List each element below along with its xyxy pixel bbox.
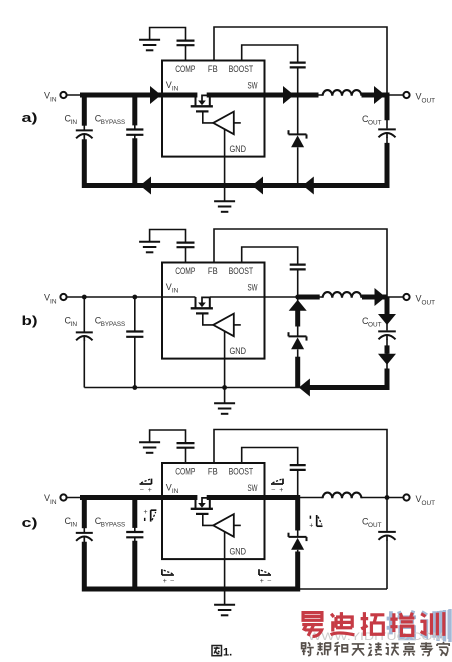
[c] capacitor COUT xyxy=(386,498,388,531)
caption figure 1 xyxy=(212,646,222,656)
[c] top ground xyxy=(139,441,160,443)
[c] op-amp IC box U1 xyxy=(162,463,265,559)
[a] thick post-inductor segment with arrow into VOUT node xyxy=(362,95,388,120)
[a] thick COUT lower leg + bottom rail + CIN lower leg xyxy=(84,139,387,185)
[b] wire comp-gnd xyxy=(150,230,186,243)
[c] capacitor comp cap xyxy=(177,442,195,444)
svg-text:+: + xyxy=(144,509,148,516)
[a] thick CIN upper leg xyxy=(82,95,87,126)
svg-text:b): b) xyxy=(22,313,38,328)
[b] VIN terminal xyxy=(60,294,66,300)
svg-text:IN: IN xyxy=(50,96,57,103)
[b] wire driver input stub xyxy=(234,324,241,326)
svg-text:IN: IN xyxy=(50,298,57,305)
[c] thick rail MOSFET to SW node then down xyxy=(207,498,298,531)
[c] ripple annotation 4 (SW rail) xyxy=(271,483,283,485)
[b] wire bottom rail xyxy=(84,387,387,389)
[c] ripple annotation 6 (ground right) xyxy=(259,574,271,576)
[c] capacitor CIN xyxy=(83,498,85,533)
[c] wire gate lead xyxy=(203,515,213,525)
[b] capacitor comp cap xyxy=(177,242,195,244)
svg-text:BOOST: BOOST xyxy=(229,64,254,74)
[c] capacitor boost cap xyxy=(290,464,306,466)
[b] thick diode leg upper with up arrow xyxy=(289,300,307,311)
svg-text:BOOST: BOOST xyxy=(229,467,254,477)
svg-text:IN: IN xyxy=(172,488,179,495)
svg-text:IN: IN xyxy=(71,119,78,126)
[c] ripple annotation 5 (diode leg) xyxy=(316,515,318,526)
[c] wire driver input stub xyxy=(234,524,241,526)
watermark red brand glyph tuo xyxy=(361,612,385,636)
[c] inductor L1 xyxy=(323,493,362,499)
svg-text:BYPASS: BYPASS xyxy=(101,321,126,328)
[b] thick diode leg lower xyxy=(295,357,300,388)
svg-text:OUT: OUT xyxy=(368,321,382,328)
[c] wire GND lead xyxy=(224,532,226,605)
[a] wire comp pin xyxy=(185,46,187,61)
[a] bottom ground symbol xyxy=(214,200,235,202)
[b] top ground xyxy=(139,241,160,243)
[c] transistor Q1 switch xyxy=(202,497,210,503)
[b] inductor L1 xyxy=(323,292,362,298)
[b] wire BOOST net xyxy=(242,247,298,264)
[a] wire comp-gnd xyxy=(150,28,186,41)
svg-text:IN: IN xyxy=(71,522,78,529)
[c] bottom ground symbol xyxy=(214,604,235,606)
watermark red brand glyph xun xyxy=(420,612,443,636)
watermark blue underlay glyphs xyxy=(387,611,416,639)
[a] capacitor CBYPASS xyxy=(134,95,136,130)
[c] thick CBYPASS legs xyxy=(132,498,137,528)
[c] VIN terminal xyxy=(60,494,66,500)
[a] capacitor comp cap xyxy=(177,39,195,41)
[c] thick input rail through IC xyxy=(80,495,197,500)
svg-text:SW: SW xyxy=(248,483,258,493)
svg-text:c): c) xyxy=(22,515,38,530)
[a] op-amp driver U2 xyxy=(213,112,234,135)
[a] transistor Q1 switch xyxy=(202,95,210,101)
[a] VIN terminal xyxy=(60,92,66,98)
svg-text:+: + xyxy=(148,487,152,494)
[a] wire BOOST net xyxy=(242,45,298,62)
[c] ripple annotation 3 (ground left) xyxy=(162,574,174,576)
svg-text:IN: IN xyxy=(172,288,179,295)
svg-text:SW: SW xyxy=(248,81,258,91)
[c] wire BOOST net xyxy=(242,448,298,465)
svg-text:+: + xyxy=(260,578,264,585)
[a] top ground xyxy=(139,39,160,41)
svg-text:+: + xyxy=(279,487,283,494)
[b] wire FB net xyxy=(214,229,387,297)
[b] capacitor CIN xyxy=(83,297,85,332)
svg-text:1.: 1. xyxy=(223,647,232,659)
[c] op-amp driver U2 xyxy=(213,514,234,537)
[c] wire comp-gnd xyxy=(150,430,186,443)
[b] VOUT terminal xyxy=(403,294,409,300)
[c] thick CIN upper leg xyxy=(82,498,87,529)
[b] op-amp driver U2 xyxy=(213,314,234,337)
[c] VOUT terminal xyxy=(403,494,409,500)
[b] wire gate lead xyxy=(203,315,213,325)
[b] op-amp IC box U1 xyxy=(162,263,265,359)
[a] wire gate lead xyxy=(203,113,213,123)
[b] bottom rail left arrow into diode junction xyxy=(299,379,310,397)
svg-text:–: – xyxy=(268,578,272,585)
[a] capacitor boost cap xyxy=(290,61,306,63)
watermark tagline glyphs xyxy=(302,642,314,655)
[b] bottom ground symbol xyxy=(214,402,235,404)
svg-text:OUT: OUT xyxy=(368,119,382,126)
[a] wire bottom rail xyxy=(84,185,387,187)
svg-text:OUT: OUT xyxy=(422,97,436,104)
[c] wire boost cap to SW xyxy=(297,469,299,497)
[b] capacitor boost cap xyxy=(290,264,306,266)
svg-text:GND: GND xyxy=(230,546,247,556)
svg-text:IN: IN xyxy=(71,321,78,328)
svg-text:OUT: OUT xyxy=(368,522,382,529)
[a] wire driver input stub xyxy=(234,122,241,124)
watermark red brand glyph yi xyxy=(302,613,323,637)
watermark red brand glyph di xyxy=(331,612,355,635)
svg-text:FB: FB xyxy=(208,266,218,276)
[a] VOUT terminal xyxy=(403,92,409,98)
svg-text:OUT: OUT xyxy=(422,500,436,507)
svg-text:BYPASS: BYPASS xyxy=(101,119,126,126)
[a] wire GND lead xyxy=(224,129,226,201)
[b] wire comp pin xyxy=(185,248,187,263)
[b] transistor Q1 switch xyxy=(202,297,210,303)
[a] wire boost cap to SW xyxy=(297,67,299,95)
svg-text:–: – xyxy=(140,487,144,494)
[c] thick diode lower leg + bottom rail + CIN leg xyxy=(84,542,297,589)
[c] wire main rail xyxy=(66,497,195,499)
[a] thick input rail with arrow into IC xyxy=(80,93,197,98)
svg-text:a): a) xyxy=(22,110,38,125)
[a] inductor L1 xyxy=(323,90,362,96)
[a] thick SW rail with arrow xyxy=(207,93,319,98)
svg-text:+: + xyxy=(163,578,167,585)
watermark red brand glyph pei xyxy=(390,613,414,636)
[b] thick COUT lower leg with down arrow xyxy=(385,345,390,353)
svg-text:–: – xyxy=(170,578,174,585)
svg-text:OUT: OUT xyxy=(422,299,436,306)
[a] capacitor CIN xyxy=(83,95,85,130)
svg-text:+: + xyxy=(309,522,313,529)
[b] wire main rail xyxy=(66,296,195,298)
[b] thick SW node to inductor xyxy=(298,295,320,300)
[a] wire FB net xyxy=(214,27,387,95)
[b] wire boost cap to SW xyxy=(297,269,299,297)
svg-text:BOOST: BOOST xyxy=(229,266,254,276)
[b] wire GND lead xyxy=(224,331,226,403)
[b] capacitor COUT xyxy=(386,297,388,330)
svg-text:COMP: COMP xyxy=(175,64,195,74)
svg-text:IN: IN xyxy=(172,86,179,93)
[a] wire main rail xyxy=(66,94,195,96)
[c] wire FB net xyxy=(214,430,387,498)
[c] diode D1 schottky xyxy=(297,498,299,537)
[b] thick COUT upper leg with down arrow xyxy=(385,297,390,314)
[c] ripple annotation 1 (input rail) xyxy=(140,483,152,485)
[b] thick post-inductor arrow xyxy=(362,295,387,300)
svg-text:GND: GND xyxy=(230,144,247,154)
svg-text:GND: GND xyxy=(230,346,247,356)
[b] capacitor CBYPASS xyxy=(134,297,136,332)
svg-text:FB: FB xyxy=(208,467,218,477)
svg-text:IN: IN xyxy=(50,499,57,506)
[c] wire bottom rail xyxy=(84,588,387,590)
[a] thick CBYPASS legs xyxy=(132,95,137,125)
svg-text:BYPASS: BYPASS xyxy=(101,522,126,529)
svg-text:SW: SW xyxy=(248,283,258,293)
[a] capacitor COUT xyxy=(386,95,388,128)
[c] wire comp pin xyxy=(185,448,187,463)
svg-text:FB: FB xyxy=(208,64,218,74)
[c] capacitor CBYPASS xyxy=(134,498,136,533)
[a] op-amp IC box U1 xyxy=(162,61,265,157)
svg-text:COMP: COMP xyxy=(175,266,195,276)
[b] diode D1 schottky xyxy=(297,297,299,336)
[a] diode D1 schottky xyxy=(297,95,299,134)
[a] bottom rail return arrows xyxy=(140,177,151,195)
[c] ripple annotation 2 (CBYPASS leg) xyxy=(150,510,152,521)
[b] junction dots xyxy=(82,295,87,300)
svg-text:–: – xyxy=(272,487,276,494)
svg-text:COMP: COMP xyxy=(175,467,195,477)
[c] junction dot VOUT node xyxy=(385,495,390,500)
